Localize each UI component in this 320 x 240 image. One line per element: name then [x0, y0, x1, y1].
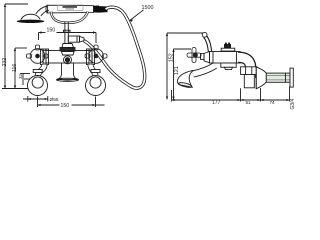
left union nut	[41, 49, 49, 65]
spout front tube	[61, 63, 63, 75]
diverter knob	[62, 44, 74, 48]
cradle post	[64, 22, 66, 44]
diverter front dot	[64, 56, 72, 64]
wall flange bell	[256, 67, 266, 89]
dia55 dimension	[23, 96, 48, 102]
svg-text:232: 232	[2, 58, 8, 67]
svg-text:74: 74	[270, 100, 276, 105]
svg-text:51: 51	[246, 100, 252, 105]
post collar	[63, 30, 70, 32]
side spout	[193, 66, 215, 75]
dimension 150 top	[39, 31, 97, 43]
1500 label leader	[130, 10, 144, 21]
right union lower nut	[91, 70, 100, 73]
side cap base	[221, 48, 235, 51]
handshower spray face	[17, 20, 45, 23]
left handle cross front	[27, 45, 49, 63]
side elbow	[238, 57, 251, 78]
dimension 152	[166, 33, 204, 100]
side cradle arm	[205, 36, 210, 52]
handshower handle	[46, 5, 94, 13]
wall pipe end bar	[290, 68, 293, 87]
elbow lower leg	[244, 75, 254, 88]
dimension 232 vertical line left	[2, 4, 31, 89]
dimension 121	[172, 49, 191, 100]
dimension 150 bottom	[38, 97, 105, 108]
elbow nut	[241, 67, 257, 75]
side cradle tip	[202, 32, 207, 37]
handshower head dome	[21, 14, 40, 20]
side handle cross	[187, 48, 201, 63]
svg-text:150: 150	[61, 103, 70, 109]
dimension 32 small	[20, 74, 31, 86]
cradle holder	[51, 12, 88, 23]
side handle stem	[201, 54, 205, 60]
hose black connector	[94, 6, 108, 13]
svg-text:32: 32	[18, 73, 23, 79]
right union nut	[87, 49, 95, 65]
left union lower nut	[33, 70, 42, 73]
left s-union	[38, 65, 45, 77]
svg-text:116: 116	[12, 64, 18, 72]
side spout mouth	[178, 82, 192, 89]
side cap knob	[224, 44, 231, 48]
svg-text:121: 121	[174, 66, 180, 75]
spout front bell	[57, 75, 79, 80]
side under collar	[221, 63, 236, 67]
left wall flange	[28, 76, 48, 96]
side body cylinder	[210, 52, 241, 64]
side cone adapter	[204, 52, 210, 63]
hose	[84, 7, 145, 88]
dimension 116 vertical line	[14, 48, 27, 89]
handle brand text	[58, 5, 84, 10]
wall pipe	[266, 73, 290, 82]
svg-text:Ø55: Ø55	[50, 97, 59, 103]
side spout bell	[177, 70, 193, 87]
svg-text:150: 150	[47, 27, 56, 33]
right wall flange	[86, 76, 106, 96]
right view bottom dimensions	[172, 87, 290, 102]
faucet body front	[43, 51, 92, 64]
right handle cross front	[85, 45, 107, 63]
handshower neck	[36, 6, 49, 16]
svg-text:G3/4: G3/4	[290, 98, 296, 109]
svg-text:1500: 1500	[142, 5, 154, 11]
hose nipple	[68, 36, 84, 42]
right s-union	[91, 65, 96, 77]
svg-text:177: 177	[212, 100, 221, 106]
